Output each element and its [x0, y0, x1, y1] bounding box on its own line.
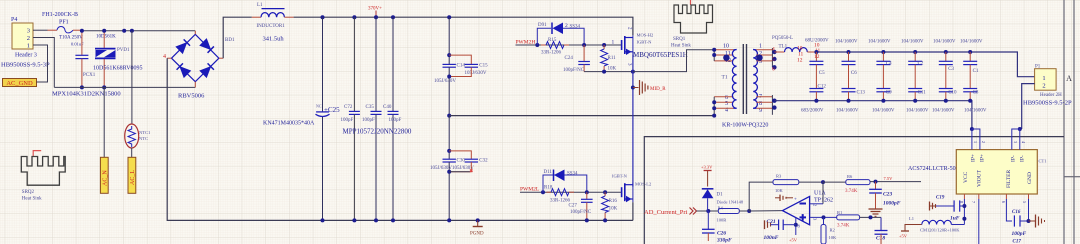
thermistor NTC1: [125, 124, 151, 148]
svg-text:6: 6: [772, 67, 775, 73]
grounded cap at opamp V+: [775, 195, 797, 203]
svg-text:104/1600V: 104/1600V: [868, 40, 891, 45]
svg-text:R15: R15: [548, 38, 557, 43]
svg-text:CT1: CT1: [1039, 159, 1047, 164]
svg-text:ACS724LLCTR-50AB: ACS724LLCTR-50AB: [908, 166, 964, 172]
inductor TL1: [772, 36, 821, 73]
svg-text:Heat Sink: Heat Sink: [671, 44, 691, 49]
svg-text:AC_GND: AC_GND: [6, 80, 33, 87]
svg-text:C40: C40: [383, 105, 392, 110]
svg-text:GND: GND: [1027, 172, 1033, 184]
svg-text:104/1600V: 104/1600V: [835, 40, 858, 45]
capacitor C35: [362, 17, 382, 220]
output bottom rail: [774, 101, 972, 129]
resistor R6: [823, 174, 921, 194]
IGBT Q-low MOS-L2: [612, 174, 651, 203]
wire bridge right corner up to top rail: [223, 17, 252, 58]
svg-text:370V+: 370V+: [368, 7, 382, 12]
svg-text:MBQ60T65PES1H: MBQ60T65PES1H: [633, 51, 688, 59]
svg-text:1: 1: [1042, 75, 1045, 82]
svg-text:683/2000V: 683/2000V: [801, 109, 824, 114]
top rail 370V: [294, 17, 633, 35]
V- pin down: [795, 218, 797, 235]
svg-text:NTC1: NTC1: [139, 130, 150, 135]
diode D11 loop: [543, 175, 557, 192]
corner stubs: [194, 31, 196, 35]
col C3/C10: [932, 40, 957, 114]
svg-text:100pF: 100pF: [341, 118, 354, 123]
wire mid to transformer primary top: [633, 50, 714, 72]
svg-text:100R: 100R: [717, 218, 727, 223]
svg-text:10K: 10K: [829, 235, 838, 240]
svg-text:C72: C72: [344, 105, 353, 110]
svg-text:U1A: U1A: [814, 191, 826, 197]
svg-text:C8: C8: [973, 91, 979, 96]
svg-text:C15: C15: [479, 64, 488, 69]
svg-text:C2: C2: [918, 62, 924, 67]
svg-text:330pF: 330pF: [716, 238, 732, 244]
op-amp U1A: [783, 182, 837, 242]
svg-text:12: 12: [797, 58, 803, 64]
svg-text:AD_Current_Pri: AD_Current_Pri: [644, 209, 688, 216]
col C2/C11: [901, 40, 929, 114]
svg-text:C6: C6: [851, 71, 857, 76]
svg-text:R2: R2: [830, 228, 835, 233]
capacitor C27: [569, 192, 593, 220]
output capacitor columns: [801, 39, 987, 114]
wire P4 pin1 to AC_GND: [41, 29, 48, 31]
svg-text:NC: NC: [316, 104, 322, 109]
net label AC_GND: [3, 79, 37, 88]
svg-text:IP-: IP-: [1011, 155, 1017, 162]
svg-text:10K: 10K: [609, 207, 618, 212]
half-bridge mid vertical: [632, 55, 634, 187]
svg-text:5: 5: [772, 57, 775, 63]
svg-text:TP1262: TP1262: [814, 198, 833, 204]
svg-text:104/1600V: 104/1600V: [933, 40, 956, 45]
svg-text:104/1600V: 104/1600V: [872, 109, 895, 114]
svg-text:3.74K: 3.74K: [837, 224, 850, 229]
svg-text:104/1600V: 104/1600V: [932, 109, 955, 114]
svg-text:R16: R16: [609, 199, 618, 204]
svg-text:7: 7: [971, 201, 976, 203]
svg-text:PWM2L: PWM2L: [520, 187, 540, 193]
VIOUT wire down: [978, 199, 980, 244]
svg-text:104/1600V: 104/1600V: [964, 109, 987, 114]
wire PWM2H to gate: [516, 44, 622, 46]
svg-text:5: 5: [1022, 201, 1027, 203]
svg-text:6: 6: [1001, 201, 1006, 203]
svg-text:L1: L1: [909, 216, 914, 221]
AC horizontal wire: [54, 86, 195, 88]
svg-text:105J/630V: 105J/630V: [434, 79, 456, 84]
output top rail: [816, 52, 1034, 77]
svg-text:100nF: 100nF: [764, 235, 779, 241]
svg-text:R6: R6: [847, 174, 853, 179]
svg-text:9: 9: [759, 108, 762, 114]
svg-text:P4: P4: [11, 17, 17, 23]
svg-text:INDUCTOR1: INDUCTOR1: [257, 24, 286, 29]
svg-text:C14: C14: [457, 64, 466, 69]
svg-text:L1: L1: [257, 3, 263, 8]
svg-text:100pF: 100pF: [389, 118, 402, 123]
svg-text:IGBT-N: IGBT-N: [637, 40, 653, 45]
svg-text:100pF/NC: 100pF/NC: [570, 210, 592, 215]
C30 C32 parallel pair: [430, 114, 488, 221]
svg-text:104/1600V: 104/1600V: [906, 109, 929, 114]
svg-text:C23: C23: [883, 192, 892, 198]
svg-text:FH1-200CK-B: FH1-200CK-B: [42, 12, 78, 18]
varistor PVD1: [93, 29, 143, 90]
svg-text:C16: C16: [1012, 210, 1021, 215]
svg-text:C19: C19: [936, 196, 945, 201]
col C4/C9: [868, 40, 895, 114]
transformer T1: [712, 44, 776, 129]
svg-text:C24: C24: [565, 56, 574, 61]
wire PWM2L to gate: [520, 191, 622, 193]
svg-text:PQ5050-L: PQ5050-L: [772, 36, 793, 41]
svg-text:+: +: [794, 198, 797, 203]
svg-text:C17: C17: [1013, 240, 1022, 244]
power port PGND: [470, 220, 484, 236]
svg-text:A: A: [1066, 74, 1072, 83]
svg-text:SRQ2: SRQ2: [22, 190, 35, 195]
svg-text:SS34: SS34: [567, 172, 578, 177]
svg-text:105J/630V: 105J/630V: [465, 71, 487, 76]
svg-text:3: 3: [27, 28, 30, 35]
svg-text:PCX1: PCX1: [83, 73, 96, 78]
FILTER branch with C16: [1006, 199, 1044, 244]
resistor R18: [544, 186, 574, 204]
svg-text:C26: C26: [717, 231, 726, 237]
svg-text:C5: C5: [819, 71, 825, 76]
wire NTC to AC_L: [131, 148, 133, 158]
junction dots on top rail: [321, 15, 325, 19]
resistor R16: [602, 192, 618, 220]
svg-text:IP+: IP+: [980, 154, 986, 162]
resistor R11: [601, 45, 617, 72]
svg-text:C27: C27: [569, 204, 578, 209]
heat sink SRQ1: [671, 0, 713, 49]
plus input pin: [810, 216, 837, 218]
svg-text:SS34: SS34: [570, 25, 581, 30]
svg-text:D11: D11: [544, 170, 553, 175]
svg-text:C13: C13: [857, 91, 866, 96]
svg-text:+C25: +C25: [324, 106, 340, 114]
svg-text:MOS-L2: MOS-L2: [635, 182, 651, 187]
VCC branch with C19 and choke: [899, 196, 966, 239]
net label AC_L (vertical): [128, 157, 136, 193]
resistor R15: [541, 38, 569, 56]
svg-text:1: 1: [759, 44, 762, 50]
wire AC_N drop: [103, 87, 105, 157]
diode D11: [544, 170, 579, 182]
capacitor C18: [875, 217, 888, 244]
core: [742, 44, 744, 114]
svg-text:AC_L: AC_L: [130, 170, 136, 185]
svg-text:MPP10572J20NN22800: MPP10572J20NN22800: [343, 128, 412, 136]
svg-text:C9: C9: [886, 91, 892, 96]
svg-text:33R-1266: 33R-1266: [550, 199, 571, 204]
svg-text:C1: C1: [973, 69, 979, 74]
wire P1 pin2: [1022, 84, 1035, 129]
svg-text:MID_R: MID_R: [650, 87, 666, 92]
svg-text:+5V: +5V: [899, 234, 908, 239]
svg-text:2: 2: [1042, 83, 1045, 90]
svg-text:PGND: PGND: [470, 232, 484, 237]
svg-text:C10: C10: [948, 91, 957, 96]
svg-text:1000pF: 1000pF: [883, 201, 901, 207]
svg-text:33R-1206: 33R-1206: [541, 51, 562, 56]
junction dots on fuse wire: [122, 29, 126, 33]
IC U-ACS724 current sensor: [908, 127, 1047, 203]
no-connect stub: [449, 171, 470, 173]
svg-text:R11: R11: [608, 56, 617, 61]
wire bridge left corner down to PGND rail: [167, 58, 633, 220]
diode D1: [702, 189, 744, 211]
svg-text:104/1600V: 104/1600V: [901, 40, 924, 45]
wire AC_L drop to NTC: [131, 31, 133, 125]
svg-text:D91: D91: [538, 23, 547, 28]
svg-text:+5V: +5V: [789, 238, 798, 243]
svg-text:IGBT-N: IGBT-N: [612, 174, 628, 179]
svg-text:RBV5006: RBV5006: [178, 93, 205, 100]
wire fuse to bridge top: [80, 30, 195, 32]
svg-text:68U/2000V: 68U/2000V: [805, 39, 829, 44]
svg-text:D1: D1: [717, 193, 724, 198]
capacitor PCX1: [71, 29, 96, 90]
svg-text:Header 3: Header 3: [15, 53, 37, 59]
svg-text:3.74K: 3.74K: [845, 189, 858, 194]
resistor R4: [717, 206, 750, 223]
wire P4 pin2 down to AC line: [41, 38, 54, 88]
svg-text:10K: 10K: [608, 67, 617, 72]
svg-text:Heat Sink: Heat Sink: [22, 197, 42, 202]
svg-text:1: 1: [612, 40, 615, 46]
svg-text:T1: T1: [722, 75, 728, 81]
capacitor C21: [764, 219, 796, 241]
svg-text:C3: C3: [948, 67, 954, 72]
svg-text:VCC: VCC: [963, 171, 969, 183]
svg-text:R3: R3: [776, 174, 782, 179]
svg-text:104/1600V: 104/1600V: [960, 40, 983, 45]
diode D91 SS34 loop: [537, 28, 551, 45]
svg-text:10: 10: [723, 44, 729, 50]
svg-text:PVD1: PVD1: [117, 48, 130, 53]
svg-text:MOS-H2: MOS-H2: [637, 33, 654, 38]
svg-text:BD1: BD1: [225, 38, 235, 43]
midpoint wire: [449, 115, 714, 117]
svg-text:SRQ1: SRQ1: [673, 37, 686, 42]
svg-text:KR-100W-PQ3220: KR-100W-PQ3220: [722, 123, 768, 129]
resistor R2: [821, 217, 837, 244]
C14 C15 parallel pair: [434, 17, 488, 115]
svg-text:1: 1: [27, 43, 30, 50]
svg-text:C30: C30: [457, 159, 466, 164]
svg-text:C11: C11: [918, 91, 927, 96]
svg-text:100pF: 100pF: [362, 118, 375, 123]
svg-text:HB9500SS-9.5-2P: HB9500SS-9.5-2P: [1023, 100, 1072, 107]
svg-text:VIOUT: VIOUT: [977, 169, 983, 187]
wire to opamp output: [749, 210, 782, 212]
resistor R1: [822, 210, 882, 229]
primary winding arcs: [732, 50, 736, 109]
capacitor C40: [383, 17, 402, 220]
svg-text:C12: C12: [818, 85, 827, 90]
svg-text:4: 4: [163, 54, 166, 60]
heat sink SRQ2: [21, 151, 65, 202]
svg-text:105J/630V105J/630V: 105J/630V105J/630V: [430, 166, 474, 171]
svg-text:HB9500SS-9.5-3P: HB9500SS-9.5-3P: [1, 62, 50, 69]
svg-text:T10A 250V: T10A 250V: [59, 36, 83, 41]
svg-text:2: 2: [27, 35, 30, 42]
top pins IP: [970, 127, 974, 131]
capacitor C26: [702, 211, 732, 244]
svg-text:KN471M40035*40A: KN471M40035*40A: [263, 121, 315, 127]
col C6/C13: [835, 40, 865, 114]
diode arrows on edges: [176, 39, 214, 77]
col C5/C12: [801, 39, 829, 114]
svg-text:Diode 1N4148: Diode 1N4148: [717, 200, 744, 205]
diode D91: [538, 23, 581, 35]
svg-text:FILTER: FILTER: [1006, 170, 1012, 188]
svg-text:Header 2H: Header 2H: [1040, 93, 1062, 98]
svg-text:2: 2: [981, 141, 986, 143]
port MID_R: [631, 80, 666, 95]
svg-text:NTC: NTC: [139, 136, 148, 141]
power label 370V+: [368, 7, 382, 18]
svg-text:10D561K: 10D561K: [96, 35, 116, 40]
svg-text:3: 3: [1013, 141, 1018, 143]
capacitor C25 electrolytic: [263, 17, 340, 220]
power +3.3V top: [701, 165, 713, 187]
wire under upper gate network: [584, 71, 633, 73]
svg-text:10D561K68RV0095: 10D561K68RV0095: [93, 66, 143, 72]
capacitor C23: [869, 182, 901, 217]
svg-text:+3.3V: +3.3V: [701, 165, 713, 170]
svg-text:4: 4: [1021, 141, 1026, 143]
wire output node up to R3: [749, 182, 773, 211]
svg-text:IP+: IP+: [971, 154, 977, 162]
capacitor C72: [341, 17, 360, 220]
fuse PF1: [42, 12, 83, 41]
bridge rectifier BD1: [163, 31, 235, 100]
svg-text:PF1: PF1: [59, 20, 69, 26]
wire y136 from corner to border: [644, 137, 1064, 244]
svg-text:1: 1: [973, 141, 978, 143]
svg-text:100pF/NC: 100pF/NC: [563, 68, 585, 73]
svg-text:C4: C4: [886, 62, 892, 67]
svg-text:104/1600V: 104/1600V: [836, 109, 859, 114]
wire low igbt source to PGND rail: [632, 202, 634, 220]
sheet border right: [1064, 0, 1080, 244]
capacitor C24: [563, 45, 590, 73]
svg-text:7.5V: 7.5V: [884, 176, 894, 181]
svg-text:341.5uh: 341.5uh: [263, 36, 285, 43]
svg-text:MPX104K31D2KN15800: MPX104K31D2KN15800: [52, 91, 121, 98]
inductor L1: [252, 3, 294, 43]
svg-text:2: 2: [813, 204, 818, 206]
col C1/C8: [960, 40, 987, 114]
connector P1: [1023, 65, 1072, 107]
svg-text:R1: R1: [837, 210, 842, 215]
net label AC_N (vertical): [100, 157, 108, 193]
minus input pin: [810, 203, 823, 205]
svg-text:CM1201/120R+100K: CM1201/120R+100K: [920, 228, 960, 233]
PGND rail dots: [321, 218, 325, 222]
IGBT Q-high MOS-H2: [612, 27, 688, 66]
connector P4: [1, 17, 50, 69]
svg-text:AC_N: AC_N: [103, 170, 109, 186]
svg-text:C32: C32: [479, 159, 488, 164]
resistor R3: [773, 174, 823, 194]
secondary winding arcs: [753, 50, 757, 109]
svg-text:C35: C35: [366, 105, 375, 110]
svg-text:1uF: 1uF: [950, 216, 960, 222]
svg-text:IP-: IP-: [1020, 155, 1026, 162]
net port AD_Current_Pri: [644, 208, 697, 217]
svg-text:100pF: 100pF: [1012, 231, 1027, 237]
svg-text:10K: 10K: [775, 188, 784, 193]
ground: [869, 208, 883, 210]
